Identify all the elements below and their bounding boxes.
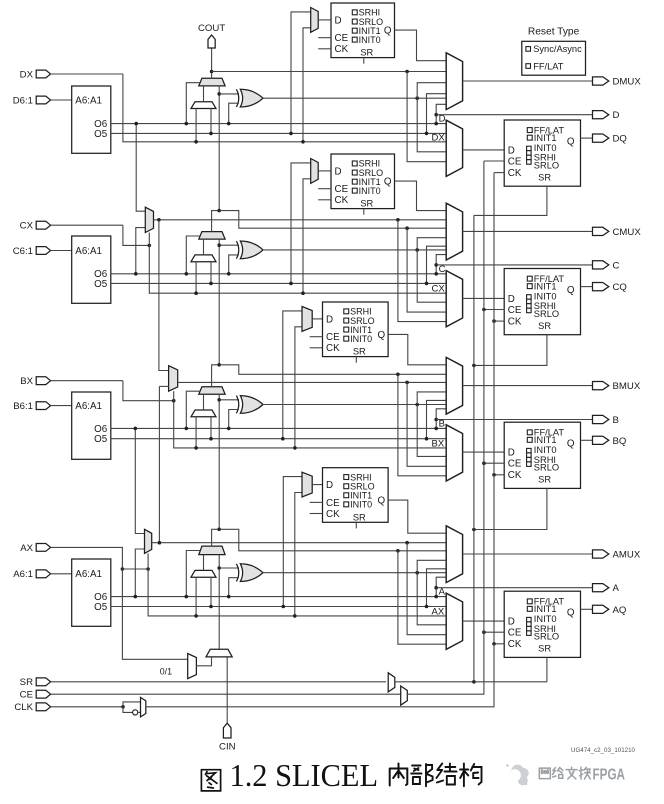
wire AX down to 0/1 mux bbox=[122, 569, 187, 659]
wire DMUX mux to pin bbox=[463, 80, 593, 82]
wire O6 notch lane B bbox=[436, 409, 446, 429]
svg-text:INIT0: INIT0 bbox=[359, 186, 381, 196]
mux CLK polarity bbox=[141, 697, 146, 717]
output pin BQ bbox=[593, 436, 609, 444]
wire B5FF CK stub bbox=[310, 347, 323, 349]
wire DI mux left leg to CX line bbox=[195, 262, 197, 294]
mux DI select B (O5/BX) bbox=[191, 410, 216, 417]
output pin CMUX bbox=[593, 227, 609, 235]
flip-flop A5FF bbox=[323, 468, 389, 523]
output pin CQ bbox=[593, 283, 609, 291]
junction O6 notch bottom C bbox=[434, 272, 438, 276]
junction XOR lane D bbox=[415, 96, 419, 100]
svg-text:D: D bbox=[508, 145, 515, 156]
output pin A bbox=[593, 584, 609, 592]
wire BX drop to F8MUX select bbox=[123, 381, 174, 401]
wire AX pin to drop bbox=[51, 546, 123, 548]
wire B5FF mux to D input bbox=[312, 318, 322, 320]
wire BMUX mux to pin bbox=[463, 385, 593, 387]
svg-text:D: D bbox=[326, 480, 333, 491]
svg-text:A6:A1: A6:A1 bbox=[75, 401, 102, 412]
wire CX to C5FF mux bbox=[303, 179, 311, 293]
wire CIN to CYINIT mux bbox=[226, 657, 228, 723]
wire CX pin to drop bbox=[51, 224, 123, 226]
svg-text:SR: SR bbox=[360, 48, 373, 58]
carry mux CY C bbox=[199, 232, 225, 240]
svg-text:CE: CE bbox=[326, 498, 340, 509]
svg-text:D6:1: D6:1 bbox=[13, 95, 33, 106]
pin COUT bbox=[208, 35, 215, 48]
svg-text:CK: CK bbox=[508, 639, 522, 650]
junction O6 notch top D bbox=[434, 113, 438, 117]
wire XOR lane to muxes C bbox=[417, 238, 446, 303]
junction O5 tap D bbox=[289, 132, 293, 136]
junction carry select O6 B bbox=[185, 427, 189, 431]
svg-text:BX: BX bbox=[432, 438, 445, 449]
svg-text:INIT0: INIT0 bbox=[534, 614, 557, 624]
wire A5FF CE stub bbox=[310, 501, 323, 503]
wire DI mux right leg to O5 A bbox=[210, 577, 212, 606]
wire BQ to pin bbox=[581, 439, 593, 441]
svg-text:C: C bbox=[613, 260, 620, 271]
junction F7B out to F8 bbox=[157, 218, 161, 222]
junction BX-F8 select bbox=[172, 399, 176, 403]
svg-text:CE: CE bbox=[508, 156, 522, 167]
LUT B (A6:A1) bbox=[72, 392, 111, 459]
svg-text:1.2 SLICEL: 1.2 SLICEL bbox=[230, 757, 379, 793]
output D direct line to pin bbox=[436, 114, 592, 116]
wire AFF CK stub bbox=[494, 643, 504, 645]
svg-text:A: A bbox=[613, 583, 620, 594]
carry mux CY B bbox=[199, 387, 225, 394]
svg-text:D: D bbox=[326, 314, 333, 325]
junction XOR tap C bbox=[217, 243, 221, 247]
junction AX tap bbox=[293, 614, 297, 618]
wire O5 to C5FF mux bbox=[291, 163, 311, 284]
wire F7A to F8MUX bbox=[159, 385, 168, 387]
flip-flop D5FF bbox=[331, 3, 395, 58]
wire B5FF SR stub bbox=[355, 357, 357, 363]
svg-text:CE: CE bbox=[20, 690, 33, 701]
junction XOR tap D bbox=[217, 92, 221, 96]
caption glyph bu bbox=[411, 764, 432, 786]
junction O5 lane D bbox=[425, 132, 429, 136]
wire XOR A bottom input leg bbox=[229, 578, 239, 597]
junction carry select O6 C bbox=[185, 272, 189, 276]
input pin C6:1 bbox=[36, 247, 50, 255]
mux DFF input select bbox=[446, 120, 462, 176]
watermark glyph huan bbox=[579, 767, 590, 779]
svg-text:CK: CK bbox=[508, 317, 522, 328]
wire XOR D bottom input leg bbox=[229, 103, 239, 123]
junction O6 D tap bbox=[134, 122, 138, 126]
wire SR line bbox=[51, 681, 386, 683]
wire DQ to pin bbox=[581, 137, 593, 139]
wire carry chain into A mux bbox=[218, 555, 220, 650]
junction O5 lane C bbox=[425, 282, 429, 286]
svg-text:CE: CE bbox=[335, 33, 349, 44]
wire DX pin to drop bbox=[51, 73, 123, 75]
junction CE bus C bbox=[482, 308, 486, 312]
legend Reset Type box bbox=[522, 41, 586, 75]
input pin BX bbox=[36, 377, 50, 385]
wire carry select to O6 D bbox=[186, 83, 200, 124]
xor gate B bbox=[240, 396, 263, 414]
svg-text:D: D bbox=[508, 617, 515, 628]
wire F7 lane to mux2 B bbox=[398, 374, 446, 476]
mux CE gate bbox=[401, 686, 408, 705]
wire carry select to O6 B bbox=[186, 391, 200, 428]
junction CK bus A bbox=[492, 642, 496, 646]
wire XOR lane to muxes D bbox=[417, 83, 446, 152]
watermark glyph wang bbox=[539, 768, 550, 779]
junction carry select O6 D bbox=[185, 122, 189, 126]
junction SR bus B bbox=[472, 528, 476, 532]
wire C6:1 to LUT bbox=[51, 250, 72, 252]
svg-text:DX: DX bbox=[432, 132, 446, 143]
svg-text:AX: AX bbox=[20, 543, 33, 554]
junction F7A out to F8 lane bbox=[158, 541, 162, 545]
LUT D (A6:A1) bbox=[72, 86, 111, 153]
input pin D6:1 bbox=[36, 96, 50, 104]
wire A5FF CK stub bbox=[310, 513, 323, 515]
junction AX branch bbox=[121, 567, 125, 571]
wire DI mux right leg to O5 C bbox=[210, 262, 212, 284]
junction O6 B tap bbox=[134, 427, 138, 431]
wire CLK direct path bbox=[123, 702, 141, 707]
wire carry chain into B mux bbox=[218, 394, 220, 529]
input pin B6:1 bbox=[36, 402, 50, 410]
svg-text:BQ: BQ bbox=[613, 436, 627, 447]
junction DI-O5 B bbox=[209, 437, 213, 441]
wire O6 D to F7BMUX bbox=[136, 124, 145, 212]
wire D5FF SR stub bbox=[363, 58, 365, 64]
wire O5 line row A bbox=[111, 606, 446, 608]
xor gate C bbox=[240, 241, 263, 259]
wire carry chain into C mux bbox=[218, 239, 220, 365]
wire O6 line row D bbox=[111, 123, 446, 125]
wire BX line bbox=[174, 401, 447, 448]
wire C5FF SR stub bbox=[363, 209, 365, 215]
junction DI-DX bbox=[194, 140, 198, 144]
wire DI mux output to carry mux C bbox=[203, 239, 205, 255]
wire C5FF Q to CMUX mux bbox=[395, 181, 447, 211]
junction DX tap bbox=[301, 140, 305, 144]
svg-text:FPGA: FPGA bbox=[593, 767, 626, 784]
wire carry select to O6 C bbox=[186, 236, 200, 274]
wire B6:1 to LUT bbox=[51, 405, 72, 407]
wire B5FF Q to BMUX mux bbox=[388, 334, 446, 364]
svg-text:A6:A1: A6:A1 bbox=[75, 569, 102, 580]
xor gate A bbox=[240, 564, 263, 582]
wire O6 notch lane A bbox=[436, 577, 446, 596]
LUT A (A6:A1) bbox=[72, 559, 111, 626]
junction BX tap bbox=[293, 446, 297, 450]
wire C5FF CK stub bbox=[318, 199, 331, 201]
svg-text:B6:1: B6:1 bbox=[13, 401, 33, 412]
junction XOR-O6 D bbox=[227, 122, 231, 126]
mux D5FF D-select bbox=[311, 8, 319, 33]
junction XOR tap A bbox=[217, 566, 221, 570]
wire CO lane to mux2 B bbox=[407, 382, 446, 466]
wire BFF CE stub bbox=[484, 462, 504, 464]
svg-text:CQ: CQ bbox=[613, 282, 627, 293]
inverter bubble CLK bbox=[133, 710, 138, 715]
mux DMUX output select bbox=[446, 53, 462, 110]
wire CO lane to mux2 D bbox=[407, 72, 446, 162]
svg-text:O5: O5 bbox=[94, 434, 108, 445]
junction XOR lane C bbox=[415, 248, 419, 252]
mux CMUX output select bbox=[446, 203, 462, 260]
svg-text:AMUX: AMUX bbox=[613, 550, 641, 561]
wire XOR C top input bbox=[219, 244, 239, 246]
wire DFF CK stub bbox=[494, 172, 504, 174]
xor gate D bbox=[240, 89, 263, 107]
svg-text:C: C bbox=[439, 264, 446, 275]
svg-text:CK: CK bbox=[335, 44, 349, 55]
output C direct line to pin bbox=[436, 264, 592, 266]
junction DI-O5 D bbox=[209, 132, 213, 136]
LUT C (A6:A1) bbox=[72, 236, 111, 303]
svg-text:Q: Q bbox=[567, 439, 575, 450]
svg-text:CK: CK bbox=[508, 470, 522, 481]
mux F7BMUX bbox=[145, 207, 153, 232]
output pin DMUX bbox=[593, 77, 609, 85]
svg-text:Q: Q bbox=[377, 496, 385, 507]
wire O5 line row B bbox=[111, 438, 446, 440]
svg-text:Reset Type: Reset Type bbox=[528, 27, 580, 38]
junction SR bus C bbox=[472, 364, 476, 368]
svg-text:D: D bbox=[508, 448, 515, 459]
wire F7BMUX output bbox=[154, 219, 447, 221]
wire AX drop bbox=[121, 547, 123, 569]
wire CO lane to mux2 A bbox=[407, 543, 446, 635]
svg-text:DX: DX bbox=[20, 69, 34, 80]
svg-text:A: A bbox=[439, 587, 446, 598]
wire O5 lane to mux1 A bbox=[427, 569, 447, 607]
carry mux CY A bbox=[199, 546, 225, 555]
svg-text:CE: CE bbox=[335, 184, 349, 195]
svg-text:CE: CE bbox=[508, 459, 522, 470]
junction carry branch lane B bbox=[396, 373, 400, 377]
svg-text:CE: CE bbox=[508, 305, 522, 316]
wire A5FF SR stub bbox=[355, 522, 357, 528]
wire DI mux output to carry mux B bbox=[203, 394, 205, 410]
svg-text:CK: CK bbox=[326, 343, 340, 354]
svg-text:Q: Q bbox=[567, 608, 575, 619]
pin CIN bbox=[223, 723, 231, 738]
wire SR bus riser bbox=[473, 215, 475, 681]
wire DX vertical drop and DX line bbox=[123, 74, 446, 142]
input pin SR bbox=[36, 678, 50, 686]
wire F7B to F8MUX bbox=[159, 220, 169, 371]
wire O6 line row A bbox=[111, 596, 446, 598]
wire SR line right bbox=[395, 681, 547, 683]
svg-text:AQ: AQ bbox=[613, 605, 627, 616]
wire carry B output stub bbox=[212, 365, 220, 387]
wire O5 line row D bbox=[111, 132, 446, 134]
svg-text:BX: BX bbox=[20, 376, 33, 387]
input pin AX bbox=[36, 544, 50, 552]
svg-text:SR: SR bbox=[538, 172, 551, 182]
junction XOR-O6 A bbox=[227, 595, 231, 599]
caption glyph nei bbox=[390, 764, 408, 786]
svg-text:INIT0: INIT0 bbox=[534, 143, 557, 153]
svg-text:CX: CX bbox=[432, 284, 446, 295]
svg-text:O5: O5 bbox=[94, 279, 108, 290]
output pin DQ bbox=[593, 134, 609, 142]
output A direct line to pin bbox=[436, 587, 592, 589]
mux DI select A (O5/AX) bbox=[191, 570, 216, 577]
svg-text:O5: O5 bbox=[94, 129, 108, 140]
wire D5FF mux to D input bbox=[318, 19, 331, 21]
junction XOR-O6 B bbox=[227, 427, 231, 431]
wire CE line right bbox=[407, 161, 484, 694]
flip-flop BFF bbox=[504, 422, 580, 488]
wire F8MUX select stub bbox=[173, 391, 175, 401]
svg-text:0/1: 0/1 bbox=[160, 667, 172, 677]
svg-text:DMUX: DMUX bbox=[613, 77, 642, 88]
wire carry select to O6 A bbox=[186, 551, 200, 597]
junction O6 A tap bbox=[134, 595, 138, 599]
wire DI mux left leg to DX line bbox=[195, 109, 197, 142]
input pin CLK bbox=[36, 703, 50, 711]
svg-text:C6:1: C6:1 bbox=[13, 246, 33, 257]
junction O6 notch bottom A bbox=[434, 595, 438, 599]
flip-flop DFF bbox=[504, 120, 580, 186]
wire CO lane to mux2 C bbox=[407, 228, 446, 312]
flip-flop B5FF bbox=[323, 302, 389, 357]
caption glyph gou bbox=[460, 764, 482, 787]
svg-text:COUT: COUT bbox=[198, 23, 225, 34]
wire F7AMUX output bbox=[152, 542, 447, 544]
wire DFF SR return bbox=[474, 186, 547, 215]
junction carry A jog bbox=[217, 528, 221, 532]
junction CX-F7B select bbox=[148, 244, 152, 248]
junction carry branch lane A bbox=[396, 549, 400, 553]
wire O5 lane to mux1 B bbox=[427, 400, 447, 438]
wire O6 line row C bbox=[111, 273, 446, 275]
caption glyph tu bbox=[201, 770, 220, 791]
wire D5FF CE stub bbox=[318, 37, 331, 39]
junction CE bus B bbox=[482, 461, 486, 465]
svg-text:SRLO: SRLO bbox=[534, 463, 559, 473]
junction SR bus root bbox=[472, 680, 476, 684]
junction O5 tap A bbox=[282, 605, 286, 609]
wire XOR B output bbox=[263, 404, 446, 406]
wire O6 notch lane C bbox=[436, 255, 446, 274]
flip-flop AFF bbox=[504, 591, 580, 657]
wire O6 A to F7AMUX bbox=[135, 549, 144, 597]
output pin AQ bbox=[593, 605, 609, 613]
junction O5 lane B bbox=[425, 437, 429, 441]
wire carry D branch to DMUX mux bbox=[212, 71, 447, 73]
wire O6 B to F7AMUX bbox=[135, 428, 144, 533]
wire DI mux left leg to BX line bbox=[195, 417, 197, 448]
junction carry select O6 A bbox=[185, 595, 189, 599]
carry mux CY D bbox=[199, 78, 225, 86]
input pin CX bbox=[36, 221, 50, 229]
wire carry A branch bbox=[219, 529, 446, 551]
wire C5FF mux to D input bbox=[318, 170, 331, 172]
wire carry B branch bbox=[219, 365, 446, 375]
svg-text:D: D bbox=[613, 110, 620, 121]
wire O5 lane to mux1 C bbox=[427, 246, 447, 283]
svg-text:INIT0: INIT0 bbox=[534, 291, 557, 301]
wire DX to D5FF mux bbox=[303, 28, 311, 142]
junction O6 notch bottom B bbox=[434, 427, 438, 431]
svg-text:INIT1: INIT1 bbox=[534, 281, 557, 291]
junction carry branch lane D bbox=[405, 70, 409, 74]
wire BFF SR return bbox=[474, 488, 547, 529]
junction DI-BX bbox=[194, 446, 198, 450]
svg-text:INIT0: INIT0 bbox=[350, 500, 372, 510]
wire CLK to CK bus bbox=[146, 173, 494, 707]
mux DI select C (O5/CX) bbox=[191, 255, 216, 262]
junction CLK split bbox=[121, 705, 125, 709]
output pin AMUX bbox=[593, 550, 609, 558]
svg-text:SR: SR bbox=[20, 677, 33, 688]
wire BX pin to drop bbox=[51, 380, 123, 382]
mux F7AMUX bbox=[145, 529, 152, 553]
svg-text:SR: SR bbox=[538, 644, 551, 654]
svg-text:A6:1: A6:1 bbox=[13, 569, 33, 580]
wire CX drop to F7BMUX select bbox=[123, 225, 149, 245]
svg-text:SR: SR bbox=[353, 512, 366, 522]
output pin BMUX bbox=[593, 382, 609, 390]
wire O6 line row B bbox=[111, 427, 446, 429]
svg-text:SR: SR bbox=[353, 347, 366, 357]
wire carry A output stub bbox=[212, 529, 220, 546]
wire DI mux right leg to O5 B bbox=[210, 417, 212, 439]
output pin B bbox=[593, 415, 609, 423]
svg-text:INIT1: INIT1 bbox=[534, 604, 557, 614]
wire O6 C to F7BMUX bbox=[136, 228, 146, 274]
svg-text:SR: SR bbox=[538, 321, 551, 331]
svg-text:CK: CK bbox=[508, 168, 522, 179]
wire BX to B5FF mux bbox=[295, 327, 302, 448]
svg-text:CE: CE bbox=[326, 332, 340, 343]
wire O5 to D5FF mux bbox=[291, 12, 311, 133]
wire D6:1 to LUT bbox=[51, 99, 72, 101]
mux F8MUX bbox=[169, 366, 178, 392]
mux B5FF D-select bbox=[302, 307, 312, 332]
svg-text:Q: Q bbox=[384, 177, 392, 188]
wire mux2 C to FF D input bbox=[463, 297, 505, 299]
svg-text:Q: Q bbox=[377, 330, 385, 341]
svg-text:CK: CK bbox=[326, 509, 340, 520]
wire CMUX mux to pin bbox=[463, 230, 593, 232]
svg-text:A6:A1: A6:A1 bbox=[75, 246, 102, 257]
wire D5FF CK stub bbox=[318, 48, 331, 50]
svg-text:BMUX: BMUX bbox=[613, 381, 641, 392]
junction O6 notch top B bbox=[434, 418, 438, 422]
mux AFF input select bbox=[446, 593, 462, 649]
mux DI select D (O5/DX) bbox=[191, 102, 216, 109]
junction XOR-O6 C bbox=[227, 272, 231, 276]
wire 0/1 mux to CYINIT bbox=[196, 657, 211, 666]
wire D5FF Q to DMUX mux bbox=[395, 30, 447, 61]
wire F7BMUX select stub bbox=[148, 233, 150, 246]
mux AMUX output select bbox=[446, 526, 462, 583]
watermark logo cloud bbox=[506, 764, 529, 785]
mux CYINIT bbox=[206, 649, 232, 657]
wire AX to A5FF mux bbox=[295, 493, 302, 616]
svg-text:B: B bbox=[613, 415, 619, 426]
junction DI-CX bbox=[194, 291, 198, 295]
wire O5 to A5FF mux bbox=[283, 477, 302, 607]
wire mux2 A to FF D input bbox=[463, 620, 505, 622]
